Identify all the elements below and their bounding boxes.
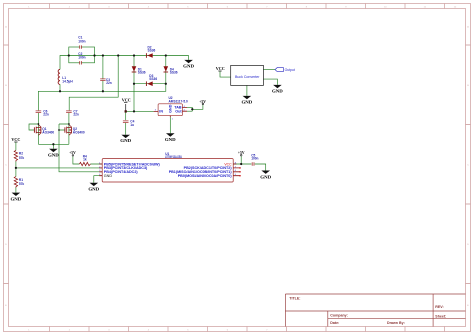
svg-text:57k: 57k [19,182,25,186]
svg-text:Drawn By:: Drawn By: [387,321,405,325]
net port Output [275,68,295,73]
net flag VCC at buck [216,67,225,71]
diode D4 [164,66,178,74]
wire C1 C2 parallel loop [69,47,95,63]
wire buck output [263,69,275,71]
ground at buck bottom [242,96,253,105]
svg-text:TITLE:: TITLE: [289,296,300,300]
svg-text:GND: GND [242,101,253,105]
svg-text:1u: 1u [130,123,134,127]
wire C4 branch to GND [125,111,127,134]
regulator U2 AMS1117-5.0 [154,96,188,120]
svg-text:AO3400: AO3400 [42,130,54,134]
svg-text:REV:: REV: [435,305,443,309]
wire buck bottom GND [246,85,248,96]
wire lower diode bus [134,83,166,85]
svg-text:IN: IN [159,109,163,113]
junction node: D1 anode on main bus [133,54,135,56]
junction node: Q2 gate to PB4 [58,129,60,131]
svg-text:GND: GND [169,104,173,113]
junction node: L1 bottom on return bus [59,90,61,92]
wire D1 branch [133,56,135,84]
title block [285,294,465,327]
wire VCC into buck converter [220,71,231,77]
svg-text:SS36: SS36 [148,48,156,52]
transistor Q1 [34,125,54,136]
junction node: Q2 gate-drain tie [68,123,70,125]
svg-text:Date:: Date: [330,321,339,325]
net flag VCC at bridge output [122,99,131,103]
capacitor C1 [78,36,85,49]
capacitor C6 [36,109,49,116]
net flag VCC at divider [11,138,20,142]
buck converter module [231,65,264,85]
svg-text:GND: GND [104,174,113,178]
junction node: C7 riser on main bus [117,54,119,56]
wire +5V flag at MCU [240,156,242,164]
wire C7 drop through Q2 to rail [68,113,70,144]
svg-text:VCC: VCC [122,99,131,103]
net flag +5V at MCU [238,151,245,156]
capacitor C4 [123,120,135,127]
svg-text:AO3400: AO3400 [73,130,85,134]
ground at MCU GND pin [88,183,99,192]
capacitor C5 [251,154,258,166]
svg-text:100n: 100n [78,39,85,43]
ground at R1 [11,193,22,202]
wire Q1 gate loop [29,124,38,130]
svg-text:Buck Converter: Buck Converter [235,75,260,79]
svg-text:SS36: SS36 [138,70,146,74]
svg-text:SS36: SS36 [149,77,157,81]
transistor Q2 [65,125,85,136]
resistor R1 [14,177,24,188]
svg-text:VCC: VCC [216,67,225,71]
wire D4 branch [165,56,167,84]
net flag +5V at R4 [69,151,76,156]
svg-text:Company:: Company: [330,314,348,318]
diode D1 [132,66,146,74]
svg-text:PB0(MOSI/AIN0/OC0A/PCINT0): PB0(MOSI/AIN0/OC0A/PCINT0) [178,174,233,178]
svg-text:Out: Out [175,109,182,113]
svg-text:57k: 57k [19,156,25,160]
svg-text:GND: GND [183,65,194,69]
junction node: C3 top on main bus [102,54,104,56]
ground at C4 [120,135,131,143]
resistor R2 [14,150,24,161]
wire C3 branch [102,56,104,92]
resistor R4 [79,155,90,166]
wire divider tap to PB3 [16,167,102,169]
svg-text:GND: GND [88,188,99,192]
junction node: D4 cathode on lower diode bus [165,83,167,85]
junction node: bridge feed joins VCC wire [133,110,135,112]
inductor L1 [58,69,73,84]
ground at U2 [165,133,176,142]
junction node: transistor source rail GND tap [52,143,54,145]
svg-text:AMS1117-5.0: AMS1117-5.0 [169,99,189,103]
net flag +5V at U2 output [199,100,206,105]
capacitor C3 [100,78,112,85]
wire VCC R2 divider chain [15,142,17,193]
wire U2 GND pin [169,117,171,133]
capacitor C2 [78,52,85,64]
capacitor C7 [66,109,79,116]
MCU U1 ATTINY13A-SSU [99,152,241,182]
svg-text:Sheet:: Sheet: [435,314,446,318]
svg-text:22n: 22n [43,113,49,117]
diode D2 [146,45,155,57]
svg-text:SS36: SS36 [170,70,178,74]
wire GND stub at right end of bus [188,56,190,60]
svg-text:22n: 22n [73,113,79,117]
svg-text:GND: GND [260,175,271,179]
wire return bus [38,84,165,111]
svg-text:GND: GND [272,90,283,94]
wire MCU GND pin [94,176,102,183]
diode D3 [146,74,157,86]
ground at transistor rail [48,149,59,158]
wire MCU VCC to C5 to GND [233,164,266,171]
svg-text:100n: 100n [251,157,258,161]
wire C6 drop through Q1 to rail [37,113,39,144]
wire main bus node AC1 [60,56,189,70]
svg-text:14.5µH: 14.5µH [62,79,73,83]
ground at bus right end [183,60,194,69]
junction node: C1/C2 left on main bus [68,54,70,56]
junction node: VCC net at C4 tap [125,110,127,112]
svg-text:GND: GND [48,153,59,157]
wire L1 bottom to return bus [59,84,61,91]
junction node: C1/C2 right on main bus [93,54,95,56]
svg-text:VCC: VCC [11,138,20,142]
junction node: Q1 gate-drain tie [38,123,40,125]
wire +5V to R4 to PB5 [73,156,102,164]
wire bridge output to VCC node [133,84,135,112]
svg-text:Output: Output [285,68,295,72]
svg-text:1k: 1k [83,158,87,162]
svg-text:100n: 100n [78,56,85,60]
junction node: C3 bottom on return bus [102,90,104,92]
svg-text:22n: 22n [106,81,112,85]
wire buck right GND [263,79,277,85]
svg-text:ATTINY13A-SSU: ATTINY13A-SSU [165,155,182,159]
svg-text:GND: GND [120,139,131,143]
junction node: +5V at MCU VCC pin [240,163,242,165]
svg-text:GND: GND [165,138,176,142]
ground at C5 [260,171,271,180]
wire transistor source rail [38,144,69,148]
wire Q2 gate node to PB4 [59,124,102,172]
svg-text:GND: GND [11,197,22,201]
wire U2 output to +5V flag [187,105,203,112]
junction node: R1 R2 divider tap [15,167,17,169]
wire VCC node to U2 IN [126,110,154,112]
junction node: D1 cathode on lower diode bus [133,83,135,85]
junction node: D4 anode on main bus [165,54,167,56]
wire C7 riser to bus [69,56,118,111]
ground at buck right [272,85,283,94]
junction node: U2 TAB-Out tie [191,108,193,110]
